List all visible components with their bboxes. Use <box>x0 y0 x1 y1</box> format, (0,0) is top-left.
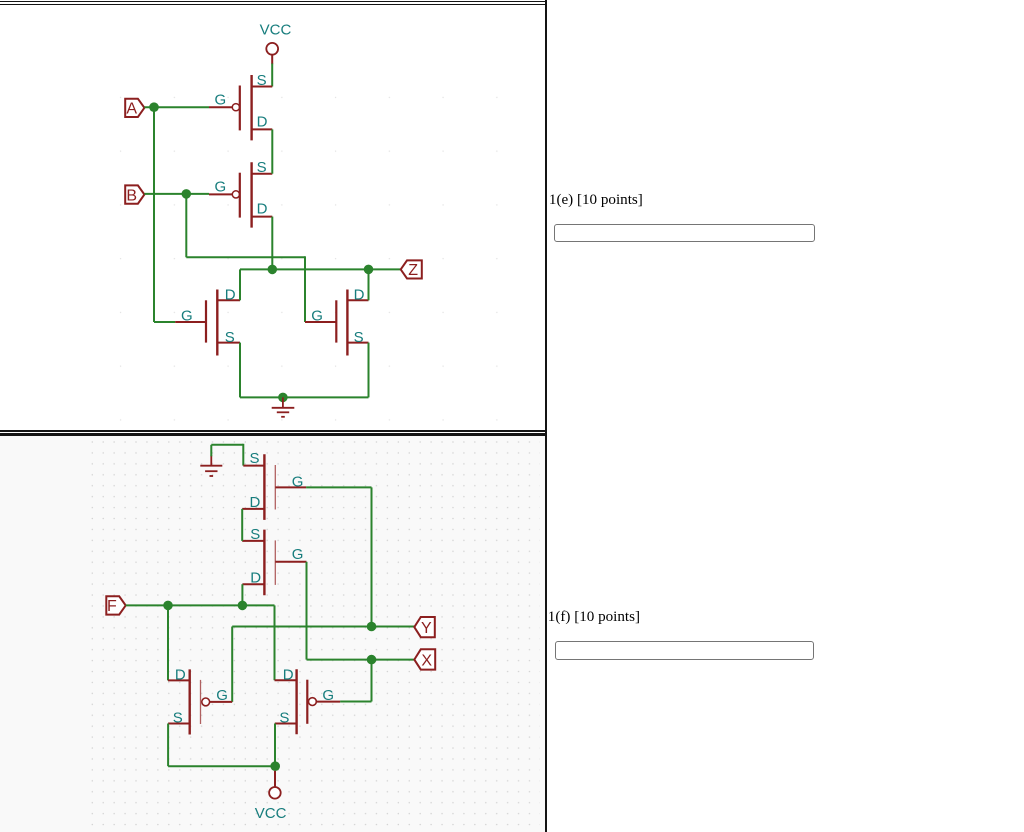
pin label D of M3 <box>175 667 186 684</box>
svg-text:S: S <box>173 709 183 726</box>
pin label D of M2 <box>250 570 261 587</box>
junction F at M3 drain column <box>163 601 173 611</box>
bottom panel background with grid dots <box>0 71 545 832</box>
top border double line <box>0 1 547 2</box>
svg-text:G: G <box>216 687 228 704</box>
svg-text:D: D <box>257 113 268 130</box>
pin label D of M1 <box>250 494 261 511</box>
wire ground up <box>210 445 212 457</box>
wire VCC to Q1 source <box>271 64 273 87</box>
svg-text:G: G <box>215 179 227 196</box>
junction node A <box>149 102 159 112</box>
junction F at M2 drain <box>238 601 248 611</box>
wire B vertical <box>185 194 187 257</box>
junction X <box>367 655 377 665</box>
wire to Q3 gate horizontal <box>154 321 175 323</box>
wire down to Q4 gate <box>304 256 306 322</box>
junction Y <box>367 622 377 632</box>
pin label G of M3 <box>216 687 228 704</box>
pin label S of M4 <box>279 709 289 726</box>
svg-text:B: B <box>126 187 137 204</box>
global label Z <box>401 260 422 279</box>
svg-text:S: S <box>279 709 289 726</box>
wire VCC rail horizontal <box>168 765 275 767</box>
pin label G of M4 <box>322 687 334 704</box>
svg-text:X: X <box>421 653 432 670</box>
wire X horizontal to M4 gate <box>340 701 371 703</box>
pin label G of Q3 <box>181 308 193 325</box>
question text 1(f) <box>548 609 640 626</box>
ground symbol (top panel) <box>272 397 295 416</box>
ground symbol (bottom panel) <box>200 455 222 476</box>
wire Q3 drain up to output <box>239 269 241 300</box>
junction output at Q4 drain <box>364 265 374 275</box>
wire Q4 drain up to output <box>368 269 370 300</box>
svg-text:S: S <box>250 450 260 467</box>
pin label S of M2 <box>250 526 260 543</box>
svg-text:G: G <box>311 308 323 325</box>
pin label G of M1 <box>292 473 304 490</box>
wire B horizontal to Q4 gate column <box>186 256 305 258</box>
svg-text:G: G <box>322 687 334 704</box>
svg-text:VCC: VCC <box>255 805 287 822</box>
svg-text:VCC: VCC <box>260 22 292 39</box>
svg-text:D: D <box>354 286 365 303</box>
svg-text:D: D <box>225 286 236 303</box>
wire down to M1 source <box>242 444 244 466</box>
wire A vertical to Q3 gate <box>153 107 155 322</box>
global label B <box>125 185 144 204</box>
pin label G of M2 <box>292 546 304 563</box>
wire output node Z horizontal <box>240 268 401 270</box>
junction VCC node <box>270 761 280 771</box>
question text 1(e) <box>549 192 643 209</box>
global label X <box>414 649 435 669</box>
svg-text:S: S <box>250 526 260 543</box>
power flag VCC (bottom) <box>255 771 287 822</box>
wire Y down to M3 gate <box>231 627 233 702</box>
svg-text:S: S <box>257 72 267 89</box>
wire B to Q2 gate <box>144 193 209 195</box>
pin label D of Q4 <box>354 286 365 303</box>
panel separator double line <box>0 430 547 432</box>
svg-text:S: S <box>257 159 267 176</box>
pin label D of Q3 <box>225 286 236 303</box>
pin label S of Q3 <box>225 329 235 346</box>
transistor Q2 PMOS (gate B) <box>209 162 272 227</box>
svg-text:Z: Z <box>408 262 418 279</box>
pin label S of M1 <box>250 450 260 467</box>
wire bottom rail to ground <box>240 396 369 398</box>
svg-text:G: G <box>292 546 304 563</box>
global label Y <box>414 617 435 637</box>
transistor Q1 PMOS (gate A) <box>209 75 272 140</box>
wire X down to M4 gate <box>371 660 373 702</box>
wire node X horizontal <box>307 659 415 661</box>
pin label S of Q4 <box>354 329 364 346</box>
pin label D of M4 <box>283 666 294 683</box>
junction output at Q2 drain <box>268 265 278 275</box>
svg-text:D: D <box>250 494 261 511</box>
column divider vertical line <box>545 0 547 832</box>
junction ground node <box>278 393 288 403</box>
transistor M2 NMOS mirrored (second) <box>242 530 306 596</box>
transistor M4 PMOS mirrored (bottom right) <box>275 669 341 734</box>
wire M2 gate vertical to node X <box>306 562 308 660</box>
wire Q1 drain to Q2 source <box>271 129 273 173</box>
svg-text:F: F <box>107 598 117 615</box>
wire node Y horizontal <box>232 626 414 628</box>
svg-text:G: G <box>215 91 227 108</box>
global label F <box>106 596 125 615</box>
junction node B <box>182 189 192 199</box>
svg-text:D: D <box>250 570 261 587</box>
pin label D of Q1 <box>257 113 268 130</box>
pin label D of Q2 <box>257 200 268 217</box>
pin label G of Q1 <box>215 91 227 108</box>
wire M1 gate horizontal <box>306 486 371 488</box>
svg-text:Y: Y <box>421 620 432 637</box>
pin label G of Q4 <box>311 308 323 325</box>
svg-text:D: D <box>175 667 186 684</box>
svg-text:S: S <box>354 329 364 346</box>
wire F down to M4 drain <box>274 605 276 680</box>
wire M4 source down <box>274 724 276 767</box>
wire M1 gate vertical to node Y <box>371 487 373 626</box>
global label A <box>125 99 144 118</box>
wire M1 drain to M2 source <box>241 509 243 541</box>
wire F down to M3 drain <box>167 605 169 680</box>
wire node F horizontal <box>126 604 275 606</box>
transistor Q4 NMOS (gate B) <box>305 290 369 356</box>
svg-text:D: D <box>257 200 268 217</box>
pin label S of Q2 <box>257 159 267 176</box>
svg-text:G: G <box>292 473 304 490</box>
svg-text:A: A <box>126 101 137 118</box>
power flag VCC (top) <box>260 22 292 65</box>
wire Q3 source down <box>239 343 241 398</box>
pin label S of Q1 <box>257 72 267 89</box>
answer input 1(e) <box>554 224 815 242</box>
svg-text:S: S <box>225 329 235 346</box>
transistor M3 PMOS mirrored (bottom left) <box>168 669 232 734</box>
wire M2 drain down to node F <box>241 584 243 605</box>
wire M3 source down <box>167 724 169 767</box>
wire Q2 drain to output node <box>271 217 273 270</box>
transistor Q3 NMOS (gate A) <box>175 290 240 356</box>
transistor M1 NMOS mirrored (top) <box>242 454 306 520</box>
answer input 1(f) <box>555 641 814 659</box>
wire Q4 source down <box>368 343 370 398</box>
wire ground horizontal <box>211 444 243 446</box>
pin label G of Q2 <box>215 179 227 196</box>
wire A to Q1 gate <box>144 106 209 108</box>
pin label S of M3 <box>173 709 183 726</box>
svg-text:G: G <box>181 308 193 325</box>
svg-text:D: D <box>283 666 294 683</box>
